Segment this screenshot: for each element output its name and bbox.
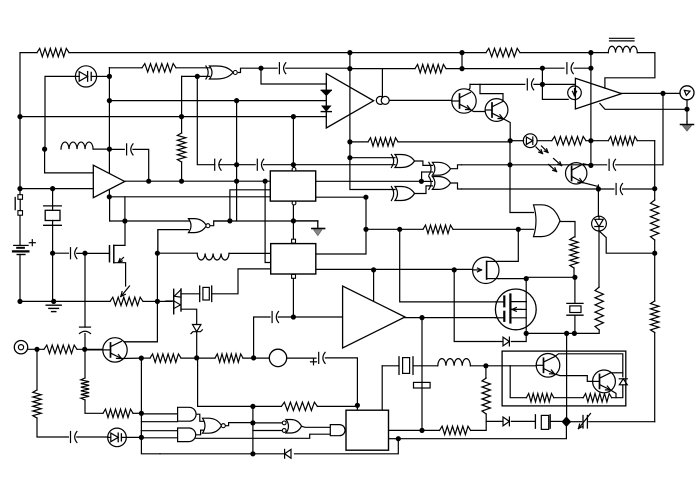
- wire PT collector: [583, 164, 591, 166]
- wire x=181.6 vertical: [181, 76, 183, 181]
- wire R13 row y=406.4: [198, 358, 358, 407]
- wire R2 row y=67.8: [109, 67, 209, 69]
- wire gateD output jog: [451, 183, 462, 189]
- wire AND1 out to NAND in1: [196, 414, 204, 421]
- wire x=517.6 to JFET drain: [499, 229, 519, 261]
- wire PT emitter drop: [597, 185, 599, 216]
- wire R12 to junction y=277.3: [526, 268, 575, 277]
- wire x=462 stub: [461, 53, 463, 69]
- capacitor C3 (U2 in): [527, 79, 533, 90]
- transistor Q2: [485, 99, 508, 122]
- capacitor C12 (polarized): [311, 352, 326, 364]
- wire R6 row y=141.9: [350, 141, 510, 143]
- wire x=85 resistor branch: [85, 349, 103, 413]
- wire R4 to node x=462: [446, 68, 542, 70]
- bubble U3 output: [376, 96, 389, 104]
- resistor R13: [595, 287, 603, 330]
- resistor R4: [415, 64, 446, 72]
- pin IC1 top: [292, 167, 296, 171]
- trimmer capacitor CT1: [579, 414, 591, 429]
- resistor R3: [177, 133, 185, 162]
- wire LED row y=140.7: [510, 140, 655, 142]
- wire left rail x=20 (battery column): [19, 117, 21, 302]
- current source CS1 (on U2): [568, 86, 582, 100]
- wire port ground stub: [600, 100, 687, 122]
- resistor R9: [651, 200, 659, 240]
- wire U3 output to Q1: [388, 99, 452, 101]
- pin IC2 top: [292, 239, 296, 243]
- wire output node to cap return: [616, 93, 663, 164]
- wire IC1 top pin riser: [292, 116, 294, 167]
- wire Q2 collector riser: [480, 84, 503, 101]
- resistor R24: [526, 394, 553, 402]
- wire Q4 base: [85, 349, 104, 351]
- transistor Q6: [593, 370, 616, 393]
- resistor R25: [583, 394, 611, 402]
- wire NAND output jog: [225, 423, 253, 426]
- xor gate GD: [429, 177, 451, 190]
- wire x=349.9 vertical: [350, 53, 395, 190]
- wire U2 output: [622, 92, 680, 94]
- inductor L4 (iron core): [608, 38, 637, 52]
- wire cap C9 to mosfet Q3 gate: [77, 252, 110, 254]
- opamp U4: [343, 286, 405, 348]
- wire top rail y=52.6: [69, 53, 655, 89]
- wire diode D4 to mosfet node: [512, 333, 527, 341]
- transistor Q4: [103, 338, 127, 362]
- box module BOX1: [502, 351, 626, 406]
- wire top-left corner / net V1: [20, 53, 37, 117]
- transistor Q1: [452, 89, 476, 113]
- resistor R23: [482, 378, 490, 414]
- wire x=574.9 crystal chain: [574, 277, 576, 333]
- wire x=253.6 riser to cap C11: [254, 317, 270, 358]
- wire gateA output jog: [415, 161, 433, 165]
- and gate AND2: [178, 428, 196, 442]
- xnor gate G1: [206, 66, 237, 79]
- inductor L2: [197, 253, 229, 260]
- phototransistor PT1: [549, 159, 599, 187]
- wire inductor L1 right: [93, 148, 109, 150]
- wire x=197.3 vertical to cap row: [197, 76, 214, 164]
- wire y=100.6 horizontal: [109, 100, 326, 102]
- wire y=84.4 to opamp U2 in1: [470, 83, 575, 85]
- diode D1b (inside U3): [321, 106, 331, 112]
- wire x=598.8 resistor chain down: [574, 231, 599, 333]
- wire Q1 emitter to Q2 base: [471, 110, 486, 112]
- capacitor C8 (gateD row): [616, 184, 622, 195]
- wire IC1 right pin y=197.2: [316, 196, 366, 198]
- resistor R7: [552, 137, 586, 145]
- ground G1: [46, 305, 61, 311]
- wire cap C12 to IC3: [325, 358, 357, 410]
- wire y=196.8 long row: [109, 196, 270, 198]
- wire y=333.4 row: [526, 332, 574, 334]
- wire Q4 emitter link: [122, 357, 142, 359]
- wire Q5 emitter to Q6 base: [555, 374, 593, 382]
- resistor R5: [486, 48, 520, 56]
- wire Q1 collector riser: [468, 84, 471, 91]
- resistor R15: [44, 345, 77, 353]
- jfet Q7: [473, 257, 527, 283]
- wire x=454.2 vertical to diode row: [454, 270, 503, 342]
- inductor L3: [438, 359, 471, 366]
- wire gateC output jog: [451, 165, 462, 169]
- crystal XT1: [44, 206, 62, 225]
- crystal XT3: [399, 357, 413, 375]
- wire inductor L2 to IC2: [229, 252, 271, 254]
- transistor Q5: [536, 354, 560, 378]
- capacitor C1 (xnor out): [279, 63, 285, 74]
- wire cap C5 row y=68.2: [542, 67, 591, 69]
- wire zener Z1 to junction: [196, 332, 198, 358]
- capacitor C13 (x=85 column): [80, 327, 91, 333]
- wire crystal XT3 row: [382, 366, 438, 410]
- LED LED1: [523, 134, 548, 154]
- wire cap C10 to varactor V2: [77, 436, 108, 438]
- wire IC1 left pin y=181.2: [182, 180, 271, 182]
- wire y=269.9 row (JFET gate): [316, 268, 473, 270]
- wire U3 output to R5 riser: [381, 69, 383, 97]
- resistor R2: [142, 64, 176, 72]
- wire IC3 right pin y=430.4: [389, 429, 440, 431]
- wire cap C4 feedback: [109, 149, 148, 181]
- wire x=422 vertical: [421, 318, 423, 431]
- opamp U2: [575, 78, 621, 109]
- wire diodes DD right bar to crystal XT2: [181, 293, 200, 295]
- capacitor C9 (Q3 gate): [71, 248, 77, 259]
- circle node M1: [269, 349, 286, 366]
- inductor L1: [61, 142, 93, 149]
- zener Z1: [191, 325, 202, 334]
- wire IC1 left pin y=189.8 from NOR node: [230, 190, 270, 221]
- nand gate NAND1: [203, 418, 226, 433]
- xor gate GB: [391, 187, 414, 201]
- wire y=229.3 row: [366, 228, 534, 230]
- crystal XT5: [535, 415, 550, 430]
- wire diamond riser: [565, 422, 567, 438]
- wire x=85 vertical cap column: [84, 253, 86, 349]
- pin IC1 bottom: [292, 201, 296, 205]
- gate GE (neg-in OR): [282, 420, 301, 434]
- wire OR gate output to R row: [560, 222, 576, 238]
- wire Q4 emitter to junction: [141, 357, 150, 359]
- wire x=109.4 vertical: [108, 68, 110, 197]
- ic IC2: [271, 244, 316, 274]
- wire x=252.9 column: [252, 406, 254, 453]
- wire AND feed mid: [140, 431, 142, 438]
- resistor R17: [215, 354, 243, 362]
- wire cap C11 to opamp U4 input: [278, 316, 342, 318]
- wire Q6 emitter drop: [611, 390, 617, 398]
- wire gateD output row y=189: [462, 188, 655, 190]
- wire x=141.4 column: [141, 358, 160, 454]
- ground A1 (gray marker): [312, 221, 325, 236]
- wire PT collector node riser: [590, 141, 592, 165]
- wire x=157.4 to inductor L2: [157, 252, 197, 254]
- wire IC1 right pin y=181.3: [316, 180, 422, 182]
- xor gate GC: [429, 162, 451, 175]
- resistor R6: [368, 138, 398, 146]
- resistor R12: [570, 237, 578, 268]
- ground G2 (port): [681, 121, 694, 131]
- wire U4 output row y=317.6: [405, 317, 496, 319]
- wire pot row y=301.4: [20, 300, 172, 302]
- resistor R1: [37, 48, 69, 56]
- wire x=373.6 stub to opamp U4: [373, 270, 375, 302]
- wire cap row y=164.7: [219, 164, 395, 166]
- resistor R8: [608, 137, 637, 145]
- wire cap C2 to node x=349.9: [286, 67, 350, 69]
- diode D5: [503, 417, 509, 426]
- wire IC2 bottom pin riser: [292, 278, 294, 317]
- wire gateE to AND3: [302, 426, 331, 427]
- fuse F1: [414, 382, 431, 388]
- wire x=366 IC2 link: [316, 197, 366, 254]
- wire x=654.7 right column: [654, 141, 656, 422]
- pin IC2 bottom: [292, 274, 296, 278]
- wire x=590.9 vertical (through U2): [590, 53, 592, 141]
- port P1: [14, 341, 27, 354]
- xor gate GA: [391, 155, 414, 168]
- diode D7 (bottom row): [285, 449, 291, 458]
- mosfet Q3: [110, 221, 126, 286]
- wire gateCD input jogs: [422, 172, 433, 181]
- wire box bottom loop: [510, 366, 623, 398]
- wire crystal XT2 to IC2 pin riser: [212, 269, 271, 294]
- wire x=265.1 vertical to IC2: [265, 181, 271, 262]
- wire NOR output jog: [210, 221, 230, 226]
- capacitor C2 (top right): [567, 63, 573, 74]
- resistor R19: [103, 409, 133, 417]
- wire Q4 collector riser: [123, 341, 158, 343]
- wire mosfet source to diamond: [566, 333, 568, 421]
- nor gate G3: [189, 219, 210, 233]
- wire diode D5 to crystal XT5: [512, 420, 536, 422]
- wire AND3 in2 long feed: [196, 434, 330, 438]
- wire AND1 inputs: [141, 414, 177, 422]
- or gate G2 (right): [534, 205, 561, 237]
- wire y=116.6 horizontal: [20, 116, 326, 118]
- resistor R20: [33, 390, 41, 418]
- capacitor C7 (fb right): [609, 159, 615, 170]
- crystal XT4: [567, 303, 583, 315]
- wire varactor V1 to node x=109: [96, 75, 109, 77]
- opamp U1: [93, 165, 124, 198]
- wire y=220.9 row: [110, 197, 318, 221]
- wire x=37 branch: [37, 349, 68, 437]
- wire x=157.4 vertical: [123, 230, 158, 342]
- junction diamond JD1: [562, 416, 572, 427]
- diode D4: [503, 337, 509, 346]
- capacitor C4 (opamp1 fb): [127, 144, 133, 155]
- double diode DD1: [166, 289, 181, 314]
- wire x=486 resistor drop: [485, 366, 487, 378]
- and gate AND3: [330, 425, 345, 436]
- wire AND2 inputs: [141, 431, 177, 438]
- wire Q2 emitter drop: [503, 119, 510, 141]
- wire IC1 bottom pin riser / IC2 top pin: [293, 205, 317, 239]
- wire R10 row y=358: [181, 357, 316, 359]
- wire mosfet drain up: [525, 279, 527, 302]
- capacitor C6 (cap row b): [257, 159, 263, 170]
- resistor R18: [281, 402, 317, 410]
- diode D3: [619, 379, 627, 385]
- wire NOR in2 feed: [158, 230, 189, 254]
- wire crystal XT5 to diamond: [550, 420, 562, 422]
- wire R17 to junction: [133, 412, 141, 414]
- wire gateB output jog: [415, 186, 433, 194]
- mosfet Q8: [495, 289, 536, 333]
- wire DD to zener Z1: [181, 309, 197, 324]
- capacitor C10 (bottom left): [71, 432, 77, 443]
- wire IC3 right pin y=438.7: [389, 438, 567, 440]
- resistor R21: [81, 378, 89, 400]
- wire x=542.4 capsplit: [542, 69, 568, 100]
- ic IC3: [346, 410, 389, 450]
- potentiometer R14: [110, 286, 143, 306]
- capacitor C5 (cap row a): [215, 159, 221, 170]
- wire inductor L3 to box: [470, 365, 538, 367]
- resistor R10: [423, 225, 453, 233]
- wire long bottom row y=453.8: [160, 439, 398, 454]
- varactor VD1: [75, 66, 96, 87]
- battery BT1: [13, 240, 35, 255]
- wire gateC output row y=164.8: [462, 164, 607, 166]
- resistor R11: [651, 301, 659, 333]
- wire R19 to riser x=486.2: [471, 414, 503, 430]
- wire varactor V2 to junction: [126, 436, 141, 438]
- port OUT1: [680, 86, 694, 100]
- opamp U3 (big): [326, 74, 373, 128]
- resistor R22: [440, 426, 471, 434]
- wire gateE inputs: [253, 423, 283, 431]
- wire opamp1 in/out: [20, 181, 182, 188]
- ic IC1: [270, 171, 315, 201]
- wire y=68.6 to R4: [350, 68, 415, 70]
- wire xnor in2 y=76.4: [182, 75, 210, 77]
- wire Q5 collector loop: [555, 354, 623, 377]
- wire trimmer row: [571, 421, 655, 423]
- wire port P1 row y=349.3: [28, 348, 104, 350]
- switch S1: [15, 195, 22, 216]
- crystal XT2: [200, 286, 212, 302]
- resistor R16: [150, 354, 181, 362]
- wire xnor output jog: [239, 68, 278, 72]
- wire Q6 collector: [611, 372, 623, 374]
- varactor VD2: [108, 428, 127, 447]
- capacitor C11 (U4 in): [272, 312, 278, 323]
- diode D1a (inside U3): [321, 90, 331, 95]
- wire circled diode to corner: [599, 231, 655, 253]
- wire x=237 vertical: [236, 101, 238, 221]
- junction dots (all nets): [17, 50, 689, 456]
- wire x=399.7 to mosfet gate1: [400, 229, 496, 302]
- wire AND2 out to NAND in2: [196, 430, 204, 435]
- wire varactor V1 left branch: [45, 76, 94, 172]
- wire x=349.9 gateA feed: [350, 157, 395, 159]
- wire xnor-node down to opamp U3 in1: [261, 68, 326, 84]
- wire x=510 vertical OR-in1: [510, 141, 534, 213]
- circled diode D6: [592, 216, 607, 231]
- wire crystal XT1 column: [53, 189, 69, 302]
- and gate AND1: [178, 407, 196, 421]
